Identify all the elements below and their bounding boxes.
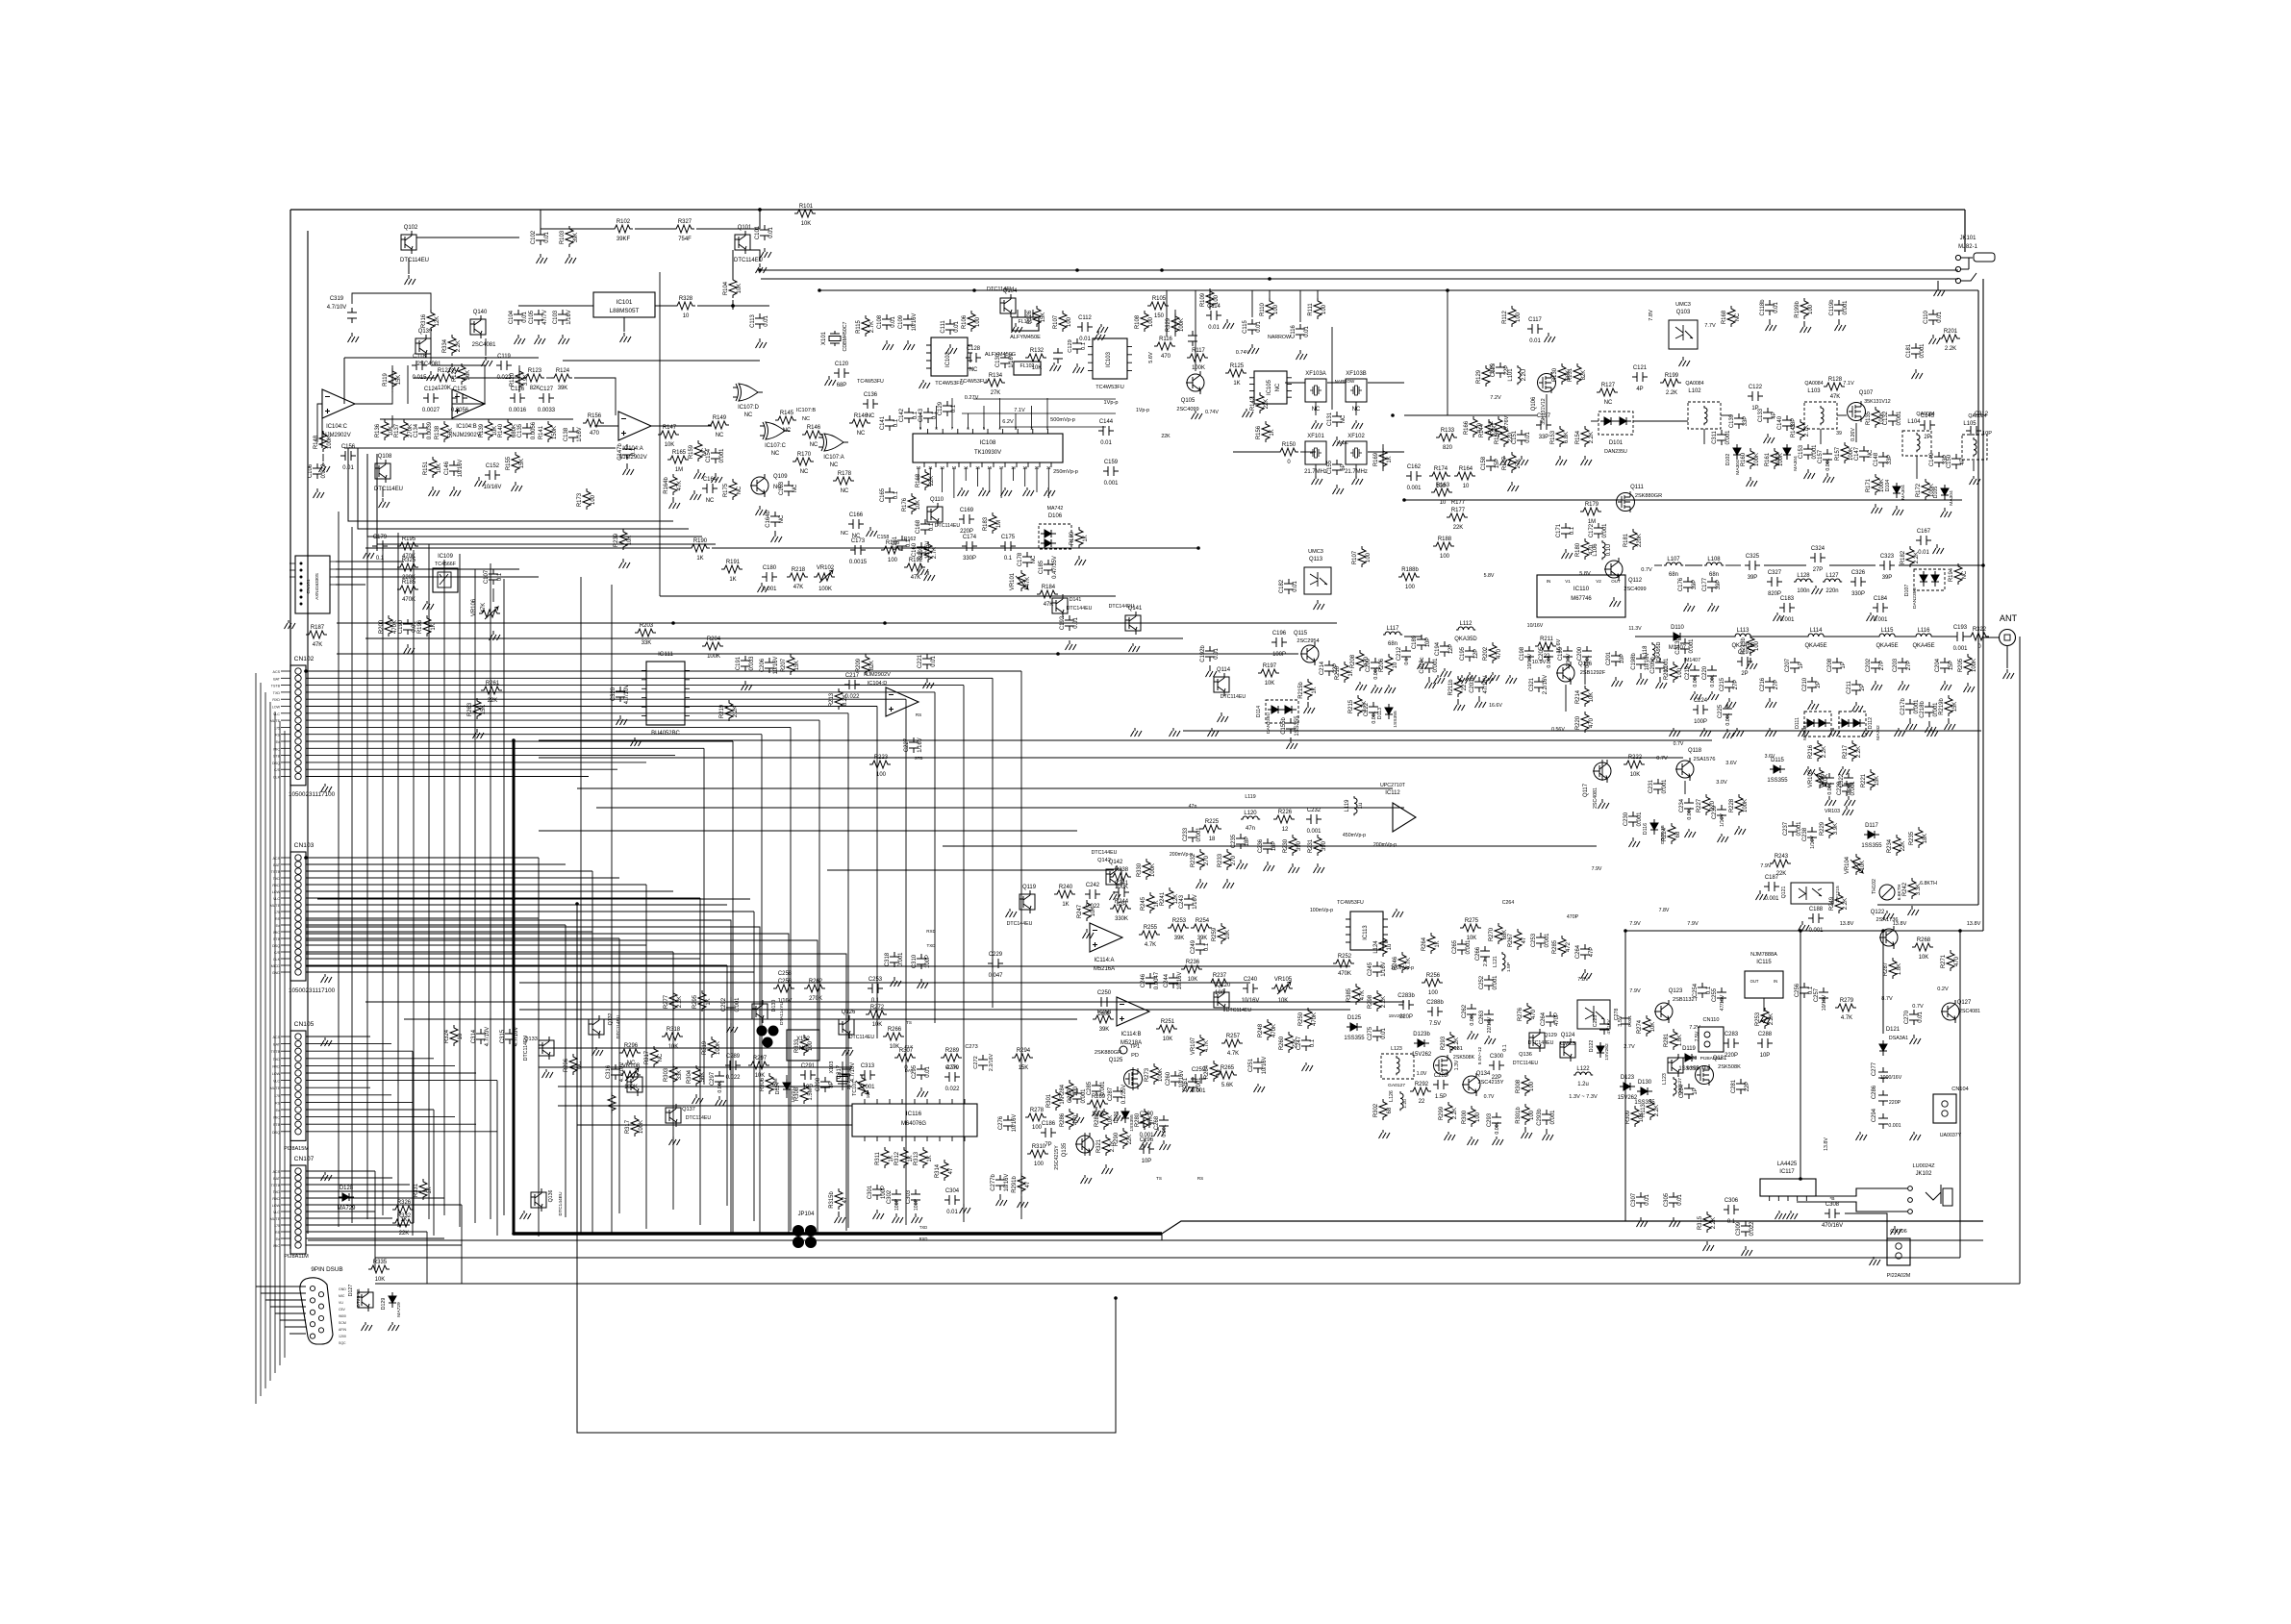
wire net [404,1018,1077,1020]
svg-text:LOW: LOW [272,706,281,710]
label v 11.3V [1628,626,1642,632]
svg-text:C134: C134 [414,423,419,437]
svg-text:ACS: ACS [273,1170,281,1174]
op-amp IC114:B [1117,997,1149,1046]
svg-text:1SS355: 1SS355 [1393,711,1398,728]
svg-text:D114: D114 [1256,706,1262,717]
wire CN107 net [306,1170,375,1172]
label R144 [1479,423,1498,437]
trimmer VR102 [814,565,835,592]
ground [1485,1036,1497,1044]
svg-text:R292: R292 [1415,1082,1428,1087]
label R176 [902,497,921,512]
svg-text:TC4W53FU: TC4W53FU [857,379,884,385]
ground [1703,1241,1715,1251]
ground [1700,728,1712,737]
svg-text:R284: R284 [1060,1084,1066,1098]
capacitor C279 [944,1065,960,1092]
transistor Q101 [734,225,763,263]
amp IC112 [1380,783,1416,832]
transistor Q120 [1214,983,1231,1012]
ground [537,254,548,263]
ground [473,729,485,738]
capacitor C164 [702,477,718,504]
svg-text:R126: R126 [1027,310,1033,324]
wire link [1317,290,1319,300]
svg-text:L105: L105 [1963,421,1976,427]
ground [1637,673,1649,685]
svg-text:TXD: TXD [273,1190,281,1194]
svg-text:CN104: CN104 [1951,1087,1968,1092]
svg-text:0.001: 0.001 [1104,481,1120,487]
resistor R147 [658,425,679,448]
wire left bundle [264,692,266,1388]
connector CN105 [270,1021,315,1140]
svg-text:R110: R110 [1260,302,1266,315]
svg-text:L116: L116 [1918,628,1930,634]
label C298 [816,1077,835,1091]
svg-text:10K: 10K [801,221,812,227]
svg-text:470P: 470P [1567,914,1579,920]
wire net [827,869,1114,871]
svg-text:C253: C253 [869,977,883,983]
svg-text:C119b: C119b [1829,299,1835,316]
ground [924,571,936,581]
svg-text:C213b: C213b [1675,637,1681,655]
label C285 [1087,1081,1106,1096]
crystal filter XF101 [1304,434,1327,475]
svg-text:330P: 330P [963,556,976,562]
label R205 [1958,658,1977,672]
ground [559,335,570,344]
svg-text:10500231117100: 10500231117100 [289,791,336,798]
svg-text:Q140: Q140 [473,310,488,315]
label R309 [1625,1110,1645,1124]
svg-text:2.2/16V: 2.2/16V [989,1053,994,1071]
ground [1095,331,1106,340]
ground [623,463,635,475]
ground [1154,1127,1166,1137]
resistor [1059,311,1067,332]
label CN110 [1700,1017,1723,1062]
dsub wires [256,1287,306,1334]
label R298 [564,1058,583,1072]
resistor [1523,1003,1531,1024]
ground [1160,1140,1171,1150]
wire [546,377,551,379]
diode [1616,417,1631,425]
wire left bundle [260,683,262,1396]
wire IC108 top pin [936,406,938,429]
capacitor [1044,560,1053,575]
svg-text:0.01: 0.01 [544,232,550,243]
svg-text:0.7V: 0.7V [1641,567,1652,573]
label R196 [417,619,437,634]
svg-text:C297: C297 [710,1072,716,1086]
wire link [1195,290,1196,371]
resistor [1893,835,1901,856]
svg-text:MA742: MA742 [1802,725,1808,740]
svg-text:Q129: Q129 [1544,1033,1557,1038]
svg-text:15K: 15K [1041,312,1046,323]
ground [1708,691,1720,700]
label R200 [379,619,398,634]
svg-text:Q122: Q122 [1871,910,1885,915]
wire CN107 net [306,1211,375,1212]
label R108 [1135,314,1154,329]
ground [1333,437,1345,446]
wire [1032,310,1034,317]
svg-text:R234: R234 [1887,838,1893,853]
svg-text:C304: C304 [945,1188,960,1194]
label L121 [1493,956,1512,972]
svg-text:L114: L114 [1810,628,1823,634]
capacitor C290 [1139,1112,1154,1138]
junction [1160,268,1164,272]
label C151 [1512,430,1531,444]
connector CN102 [270,656,315,786]
svg-text:R290: R290 [1114,1132,1120,1146]
ground [1543,1129,1554,1140]
ground [1237,860,1248,869]
svg-text:0.001: 0.001 [1493,975,1498,990]
resistor R251 [1156,1019,1177,1042]
transistor Q126 [839,1010,856,1038]
wire link [1233,451,1277,453]
resistor [381,419,389,440]
svg-text:1SS355: 1SS355 [1767,778,1788,784]
label C198b [1631,653,1650,671]
svg-text:10/16V: 10/16V [773,657,779,675]
svg-text:R211: R211 [1540,637,1553,642]
label C230 [1624,812,1643,827]
svg-text:C152: C152 [486,463,499,469]
ground [1475,696,1487,708]
svg-text:18: 18 [1209,837,1216,842]
transistor D130b [752,1000,768,1023]
svg-text:C211: C211 [1847,680,1852,693]
label C204 [1935,658,1954,672]
svg-text:0.01: 0.01 [1214,648,1220,660]
label D124 [775,1083,796,1103]
svg-text:NC: NC [658,1053,664,1062]
svg-text:0.76V: 0.76V [1504,415,1510,430]
wire weave vertical [366,519,368,1219]
svg-text:C124: C124 [424,387,439,392]
svg-text:10P: 10P [1142,1159,1152,1164]
label C147 [1854,447,1874,461]
svg-text:27P: 27P [1906,661,1912,671]
label R168 [916,473,935,487]
label C268 [1154,1115,1168,1137]
label 450mVp-p [1343,833,1397,848]
trimmer VR101 [1016,570,1028,591]
svg-text:R183: R183 [983,516,989,531]
resistor [1558,363,1566,385]
svg-text:C164: C164 [703,477,718,483]
svg-text:2SC4215Y: 2SC4215Y [1054,1145,1060,1170]
label CN105 pn [284,1146,309,1152]
wire CN107 vert [426,1232,428,1284]
svg-text:DAN235U: DAN235U [1604,449,1627,455]
IC108 TK10930V [913,429,1063,467]
svg-text:R136: R136 [375,423,381,437]
label R129 [1476,364,1496,384]
svg-text:TS: TS [1156,1176,1162,1181]
svg-text:100: 100 [1516,312,1522,322]
transistor Q141b [1052,594,1068,617]
svg-text:Q121: Q121 [1781,886,1787,898]
ground [1629,837,1641,847]
diode D126 [1121,1108,1129,1123]
label 0.2V [1912,987,1949,1010]
wire net c103f [306,954,846,1231]
svg-text:C312: C312 [1975,412,1988,417]
capacitor C283 [1724,1032,1739,1059]
svg-text:0.001: 0.001 [1100,1081,1106,1096]
capacitor [568,427,578,442]
label C322 [1839,774,1852,795]
label C161 [893,536,912,550]
ground [427,371,439,381]
svg-text:C209: C209 [1366,658,1372,672]
jumper dots [757,1026,779,1048]
svg-text:C234: C234 [1679,798,1685,812]
ground [450,487,462,496]
transistor Q114 [1214,667,1231,696]
capacitor [1707,665,1717,681]
svg-text:R326: R326 [397,1200,412,1206]
label C123 [1491,362,1510,377]
svg-text:LOW: LOW [272,1204,281,1208]
capacitor [611,1064,620,1080]
resistor [729,277,737,298]
wire IC108 bottom pin [1024,467,1026,487]
label D101 [1604,440,1627,455]
svg-text:Q110: Q110 [930,497,944,503]
label C202 [1866,659,1885,672]
label IC115 [1750,952,1777,965]
svg-text:C149: C149 [1929,452,1935,466]
svg-text:C129: C129 [1068,339,1073,352]
resistor R289 [941,1048,962,1071]
ground [1612,677,1624,687]
svg-text:STB: STB [273,1123,281,1127]
svg-text:AXN416330S: AXN416330S [315,573,319,600]
svg-text:CN110: CN110 [1703,1017,1720,1023]
svg-text:47: 47 [1025,1182,1031,1188]
svg-text:R216: R216 [1808,744,1814,759]
label Q122 [1871,910,1899,923]
capacitor C259 [1191,1067,1206,1094]
ground [1824,473,1835,483]
svg-text:C258: C258 [778,971,793,977]
svg-text:2.7K: 2.7K [1804,425,1810,437]
svg-text:7.5V: 7.5V [1695,1031,1700,1041]
label VR106 [471,598,487,616]
label X102 [796,1037,810,1052]
wire [541,228,612,230]
svg-text:4.7K: 4.7K [1227,1051,1239,1057]
svg-text:Q114: Q114 [1217,667,1231,673]
resistor R266 [883,1027,904,1050]
resistor [583,488,591,510]
wire CN105 net [306,1036,370,1037]
wire CN105 vert [433,1110,435,1236]
ground [919,380,931,388]
svg-text:C138: C138 [564,427,569,441]
junction [731,304,735,308]
dsub pin labels [339,1287,346,1345]
svg-text:100: 100 [1366,552,1372,562]
label L104 [1907,412,1934,425]
ground [1766,728,1777,737]
ground [1379,1130,1391,1138]
svg-text:R239: R239 [614,533,619,547]
wire CN102 net [306,740,733,742]
wire CN103 net [306,958,700,960]
svg-text:6.8K: 6.8K [1564,432,1570,443]
resistor [1398,952,1406,973]
svg-text:4.7K: 4.7K [1841,1015,1852,1021]
capacitor [890,952,899,967]
label C140 [1777,415,1797,430]
svg-text:R130: R130 [1552,367,1558,382]
label C287 [1108,1085,1127,1105]
wire [542,634,635,636]
resistor [862,315,869,337]
svg-text:R166: R166 [1464,420,1470,435]
label R260 [1279,1036,1298,1050]
label v 3.6V [1765,754,1775,760]
svg-text:18K: 18K [1923,834,1928,844]
svg-text:33K: 33K [677,1070,683,1081]
resistor R117 [1187,348,1208,371]
wire long rail 2 [308,1239,1983,1241]
capacitor [1465,646,1474,662]
svg-text:RS: RS [916,712,921,717]
svg-text:C198: C198 [1520,646,1525,661]
svg-text:820: 820 [1443,445,1453,451]
ground [1045,487,1056,496]
ground [904,340,916,350]
module D107 [1914,569,1945,590]
svg-text:120K: 120K [438,386,451,391]
label C165 [880,487,899,502]
svg-text:47K: 47K [1830,394,1841,400]
photocoupler Q121 [1781,883,1841,904]
label R142 [1250,397,1270,411]
svg-text:NC: NC [779,514,785,523]
diode D121 [1879,1040,1887,1056]
label R169 [1373,452,1393,466]
wire [452,403,485,405]
capacitor C180 [762,565,777,592]
svg-text:15K: 15K [794,661,800,671]
resistor [1761,1008,1769,1029]
ground [1756,890,1768,900]
svg-text:C190: C190 [398,619,404,634]
label 5.8V [1579,567,1652,577]
label C234 [1679,798,1693,819]
wire weave vertical [474,569,476,1223]
resistor R204 [702,637,723,660]
wire [407,365,409,404]
svg-text:C296: C296 [1140,1137,1154,1143]
svg-text:R107: R107 [1053,315,1059,329]
capacitor [403,619,413,635]
svg-text:R331: R331 [414,1183,419,1197]
diode D123 [1618,1075,1637,1101]
resistor [862,654,869,675]
svg-text:470K: 470K [1312,1012,1318,1026]
svg-text:L124: L124 [1373,940,1379,954]
svg-text:C233: C233 [1183,827,1189,841]
svg-text:R301b: R301b [1516,1107,1522,1124]
svg-text:C148: C148 [1874,452,1879,466]
label C262 [1462,1005,1475,1026]
svg-text:C163: C163 [779,481,785,495]
svg-text:0.01: 0.01 [1677,1194,1683,1206]
junction [1799,1177,1802,1181]
label C293b [1537,1109,1556,1126]
capacitor [1717,987,1726,1003]
junction [512,738,516,742]
svg-text:R132: R132 [1030,348,1044,354]
wire [750,250,760,262]
svg-text:1SV262: 1SV262 [1604,1043,1610,1061]
label C253c [1531,933,1550,948]
label R210 [1335,665,1354,680]
svg-text:R180: R180 [1575,542,1581,557]
label R234 [1887,838,1906,853]
label 7.2V [1490,395,1510,430]
ground [1829,728,1841,737]
resistor [708,1037,716,1058]
wire IC108 top pin [983,406,985,429]
capacitor C324 [1810,546,1825,573]
wire link [1209,290,1211,310]
label C191 [736,656,755,671]
label CN107 pn [284,1254,309,1260]
svg-text:R302: R302 [1373,1104,1379,1117]
label R291b [1012,1176,1031,1193]
resistor [1256,392,1264,413]
resistor R297 [748,1056,769,1079]
ground [1775,1211,1787,1219]
label C142 [899,409,919,422]
svg-text:7P: 7P [1045,1142,1051,1148]
inductor L114 [1804,628,1826,649]
resistor R174 [1429,466,1450,489]
svg-text:R109: R109 [1200,292,1206,307]
svg-text:0.1/35V: 0.1/35V [1121,1085,1127,1105]
svg-text:L121: L121 [1493,956,1498,967]
label C205b [1650,657,1670,674]
svg-text:L123: L123 [1391,1046,1402,1052]
svg-text:R115: R115 [856,319,862,333]
wire [732,250,734,277]
label v 7.8V [1659,908,1670,913]
ground [389,1322,400,1331]
svg-text:R253: R253 [1755,1012,1761,1026]
capacitor C186 [1041,1121,1056,1148]
wire weave vertical [351,527,353,1223]
label R219 [719,704,739,718]
ground [1066,640,1077,650]
jumper JP104 [793,1212,927,1248]
transistor Q127b [358,1288,373,1312]
